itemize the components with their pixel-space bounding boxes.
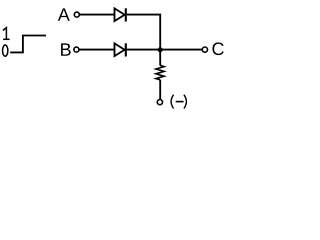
input waveform low-to-high step [10,36,46,53]
label C [212,42,223,55]
terminal C [202,47,207,52]
wire junction to resistor [159,50,161,66]
label A [58,8,70,20]
terminal negative [157,100,162,105]
logic level label digit 1 [3,28,10,40]
wire A to D1 [80,14,115,16]
wire resistor to negative terminal [159,80,161,100]
diode D1 triangle [115,8,125,21]
terminal B [74,47,79,52]
logic level label digit 0 [3,45,8,56]
diode D2 cathode bar [125,43,127,56]
junction node [158,47,163,52]
diode D1 cathode bar [125,8,127,21]
label (-) left parenthesis [171,95,174,109]
terminal A [74,12,79,17]
wire D2 to junction to terminal C [127,49,202,51]
wire D1 to corner and down to junction [127,15,160,50]
resistor R1 [156,65,164,79]
wire B to D2 [79,49,114,51]
label (-) right parenthesis [184,95,187,109]
diode D2 triangle [115,43,125,56]
label B [61,43,71,55]
label (-) minus sign [176,101,184,103]
